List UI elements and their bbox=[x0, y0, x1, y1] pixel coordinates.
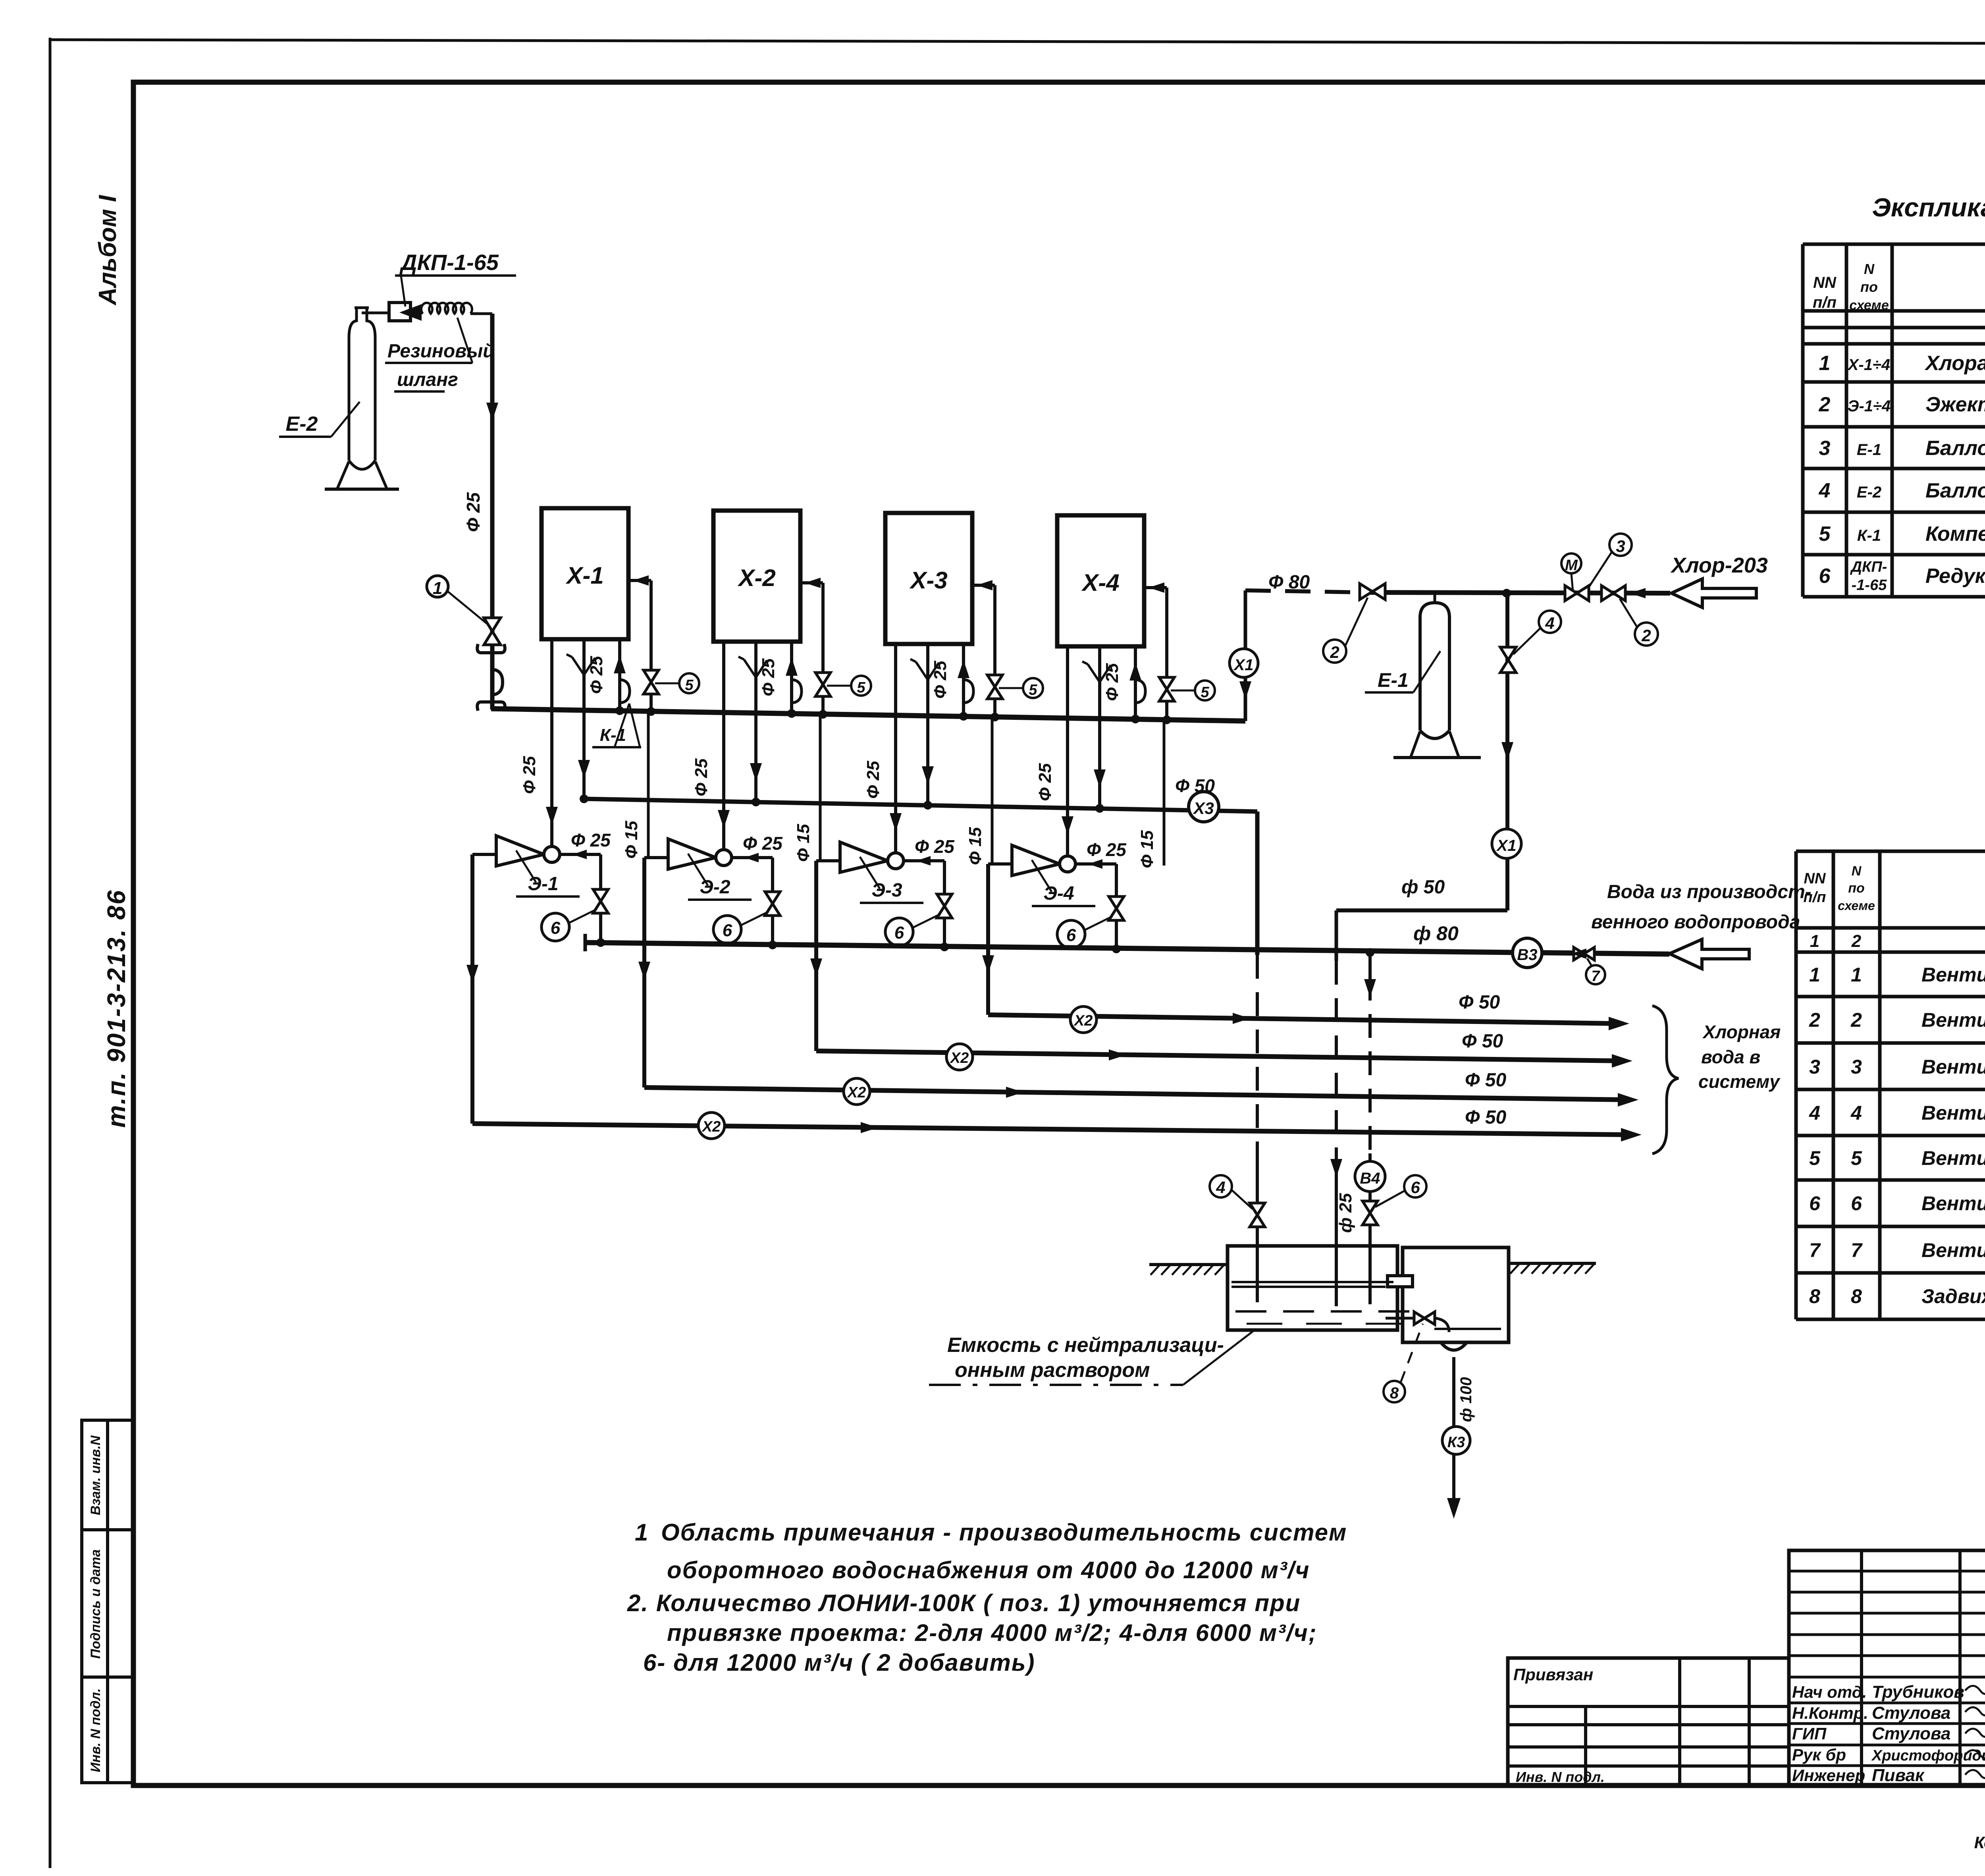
svg-text:Вентиль 15ч 14 бр; Ду 80;: Вентиль 15ч 14 бр; Ду 80; Ру 1,6 Мпа bbox=[1921, 1239, 1985, 1261]
svg-text:X1: X1 bbox=[1233, 656, 1254, 674]
svg-text:3: 3 bbox=[1809, 1056, 1820, 1078]
svg-text:X-2: X-2 bbox=[737, 565, 775, 591]
svg-text:2: 2 bbox=[1641, 626, 1651, 645]
svg-text:К-1: К-1 bbox=[1857, 527, 1881, 544]
svg-text:8: 8 bbox=[1390, 1384, 1399, 1402]
svg-text:Инв. N подл.: Инв. N подл. bbox=[88, 1688, 103, 1772]
svg-text:Ф 25: Ф 25 bbox=[863, 761, 883, 799]
svg-text:N: N bbox=[1852, 864, 1862, 879]
svg-text:Вентиль 15кч 18п Ду 15, Ру: Вентиль 15кч 18п Ду 15, Ру 1,6 Мпа bbox=[1921, 1147, 1985, 1169]
svg-text:6: 6 bbox=[723, 921, 732, 940]
svg-text:X-3: X-3 bbox=[909, 567, 947, 594]
svg-text:3: 3 bbox=[1616, 537, 1625, 555]
svg-text:схеме: схеме bbox=[1838, 898, 1875, 913]
svg-text:Хлор-203: Хлор-203 bbox=[1670, 553, 1768, 577]
svg-text:Ф 25: Ф 25 bbox=[587, 656, 606, 694]
svg-text:привязке проекта: 2-для: привязке проекта: 2-для 4000 м³/2; 4-для… bbox=[667, 1620, 1317, 1646]
svg-text:2: 2 bbox=[1819, 393, 1831, 416]
svg-text:X2: X2 bbox=[950, 1050, 969, 1066]
svg-text:Ф 50: Ф 50 bbox=[1465, 1070, 1507, 1091]
svg-text:Э-1÷4: Э-1÷4 bbox=[1848, 397, 1891, 415]
svg-text:Эжектор: Эжектор bbox=[1925, 393, 1985, 416]
svg-text:5: 5 bbox=[1851, 1147, 1862, 1169]
svg-text:4: 4 bbox=[1545, 614, 1554, 632]
svg-text:8: 8 bbox=[1851, 1285, 1862, 1307]
svg-text:по: по bbox=[1848, 881, 1865, 896]
svg-text:1: 1 bbox=[1810, 931, 1819, 951]
svg-text:вода в: вода в bbox=[1701, 1047, 1760, 1067]
svg-text:X1: X1 bbox=[1496, 837, 1517, 854]
svg-text:Е-1: Е-1 bbox=[1378, 669, 1409, 691]
svg-text:Ф 15: Ф 15 bbox=[966, 827, 985, 865]
svg-text:X2: X2 bbox=[1073, 1012, 1093, 1029]
svg-text:X-1: X-1 bbox=[565, 562, 603, 589]
svg-text:2. Количество ЛОНИИ-100К: 2. Количество ЛОНИИ-100К ( поз. 1) уточн… bbox=[627, 1590, 1301, 1616]
svg-text:4: 4 bbox=[1819, 479, 1831, 502]
svg-text:Привязан: Привязан bbox=[1513, 1665, 1593, 1684]
svg-text:8: 8 bbox=[1809, 1285, 1820, 1307]
svg-text:Трубников: Трубников bbox=[1872, 1682, 1964, 1702]
svg-text:Е-2: Е-2 bbox=[1857, 484, 1881, 501]
svg-text:оборотного водоснабжения: оборотного водоснабжения от 4000 до 1200… bbox=[667, 1557, 1310, 1583]
svg-text:онным раствором: онным раствором bbox=[955, 1359, 1150, 1382]
svg-text:7: 7 bbox=[1809, 1239, 1821, 1261]
svg-text:7: 7 bbox=[1851, 1239, 1863, 1261]
svg-text:Ф 15: Ф 15 bbox=[794, 824, 813, 862]
svg-text:Баллон с азотом емк. 50 л: Баллон с азотом емк. 50 л ГОСТ 949-73 bbox=[1925, 479, 1985, 502]
svg-text:6: 6 bbox=[1809, 1192, 1821, 1215]
svg-text:Экспликация аппаратов и оборуд: Экспликация аппаратов и оборудования bbox=[1872, 193, 1985, 222]
svg-text:5: 5 bbox=[1819, 523, 1831, 546]
svg-text:п/п: п/п bbox=[1813, 294, 1837, 311]
svg-text:Ф 25: Ф 25 bbox=[931, 661, 950, 699]
svg-text:2: 2 bbox=[1850, 1009, 1862, 1031]
svg-text:Ф 80: Ф 80 bbox=[1268, 572, 1310, 593]
svg-text:7: 7 bbox=[1591, 968, 1600, 985]
svg-text:X2: X2 bbox=[701, 1118, 721, 1135]
svg-text:ДКП-: ДКП- bbox=[1850, 559, 1887, 575]
svg-text:6: 6 bbox=[1819, 565, 1831, 588]
svg-text:Ф 15: Ф 15 bbox=[622, 821, 641, 859]
svg-text:т.п. 901-3-213. 86: т.п. 901-3-213. 86 bbox=[102, 889, 131, 1128]
svg-text:Вентиль 15ч 64 п; Ду 50; Р: Вентиль 15ч 64 п; Ду 50; Ру 0,6 МПа bbox=[1921, 1102, 1985, 1124]
svg-text:Ф 50: Ф 50 bbox=[1462, 1031, 1503, 1052]
svg-text:6- для 12000 м³/ч ( 2 добав: 6- для 12000 м³/ч ( 2 добавить) bbox=[643, 1649, 1035, 1676]
svg-text:Нач отд.: Нач отд. bbox=[1792, 1683, 1867, 1701]
svg-text:Хлорная: Хлорная bbox=[1702, 1022, 1781, 1042]
svg-text:Инженер: Инженер bbox=[1792, 1766, 1865, 1785]
svg-text:Ф 50: Ф 50 bbox=[1459, 992, 1500, 1013]
svg-text:Пивак: Пивак bbox=[1872, 1766, 1925, 1785]
svg-text:5: 5 bbox=[1809, 1147, 1821, 1169]
svg-text:Вентиль 15ч 64п; Ду 80. Ру: Вентиль 15ч 64п; Ду 80. Ру 0.6 МПа bbox=[1921, 1009, 1985, 1031]
svg-text:X3: X3 bbox=[1193, 799, 1214, 817]
svg-text:Баллон- грязевик: Баллон- грязевик bbox=[1925, 437, 1985, 460]
svg-text:2: 2 bbox=[1809, 1009, 1820, 1031]
svg-text:Ф 25: Ф 25 bbox=[692, 758, 711, 796]
svg-text:ф 100: ф 100 bbox=[1457, 1377, 1475, 1422]
svg-text:2: 2 bbox=[1330, 643, 1339, 661]
svg-text:NN: NN bbox=[1813, 274, 1837, 291]
svg-text:Ф 25: Ф 25 bbox=[463, 492, 484, 532]
svg-text:Альбом I: Альбом I bbox=[94, 195, 121, 306]
svg-text:Компенсатор: Компенсатор bbox=[1925, 523, 1985, 546]
svg-text:ф 50: ф 50 bbox=[1401, 877, 1445, 898]
svg-text:Ф 25: Ф 25 bbox=[743, 833, 783, 854]
svg-text:Ф 25: Ф 25 bbox=[759, 658, 778, 696]
svg-text:5: 5 bbox=[857, 679, 865, 696]
svg-text:Задвижа 30ч 6 бр , Ду 50;: Задвижа 30ч 6 бр , Ду 50; Ру 1.0 Мпа bbox=[1921, 1285, 1985, 1307]
svg-text:Ф 25: Ф 25 bbox=[1035, 763, 1055, 801]
svg-text:Э-2: Э-2 bbox=[700, 877, 730, 898]
svg-text:Христофориди: Христофориди bbox=[1871, 1747, 1985, 1764]
svg-text:6: 6 bbox=[1411, 1178, 1420, 1197]
svg-text:Вода из производст-: Вода из производст- bbox=[1607, 881, 1812, 902]
svg-text:4: 4 bbox=[1216, 1178, 1225, 1197]
svg-text:Н.Контр.: Н.Контр. bbox=[1792, 1704, 1868, 1722]
svg-text:1: 1 bbox=[1809, 964, 1820, 986]
svg-text:6: 6 bbox=[894, 923, 904, 943]
svg-text:Е-2: Е-2 bbox=[286, 413, 318, 436]
svg-text:венного водопровода: венного водопровода bbox=[1591, 912, 1800, 933]
svg-text:Е-1: Е-1 bbox=[1857, 441, 1881, 459]
svg-text:3: 3 bbox=[1819, 437, 1831, 460]
svg-text:ДКП-1-65: ДКП-1-65 bbox=[399, 250, 499, 275]
svg-text:1: 1 bbox=[1851, 964, 1862, 986]
svg-text:Ф 25: Ф 25 bbox=[1087, 839, 1127, 860]
svg-text:Вентиль 15кч 18 п; Ду 25;: Вентиль 15кч 18 п; Ду 25; Ру 1,6 Мпа bbox=[1921, 1192, 1985, 1215]
svg-text:1: 1 bbox=[1819, 352, 1831, 375]
svg-text:Подпись и дата: Подпись и дата bbox=[88, 1549, 103, 1659]
svg-text:X2: X2 bbox=[847, 1084, 866, 1101]
svg-text:6: 6 bbox=[1066, 925, 1076, 945]
svg-text:Ф 15: Ф 15 bbox=[1137, 830, 1157, 868]
svg-text:ГИП: ГИП bbox=[1792, 1724, 1827, 1743]
svg-text:Ф 25: Ф 25 bbox=[520, 756, 539, 794]
svg-text:Стулова: Стулова bbox=[1872, 1724, 1950, 1743]
svg-text:Э-1: Э-1 bbox=[528, 873, 558, 895]
svg-text:Инв. N подл.: Инв. N подл. bbox=[1516, 1769, 1605, 1785]
svg-text:Резиновый: Резиновый bbox=[387, 341, 495, 362]
svg-text:В4: В4 bbox=[1360, 1170, 1380, 1187]
svg-text:-1-65: -1-65 bbox=[1852, 577, 1887, 594]
svg-text:Ф 50: Ф 50 bbox=[1465, 1107, 1507, 1128]
svg-text:Рук бр: Рук бр bbox=[1792, 1745, 1846, 1764]
svg-text:Область примечания - пр: Область примечания - производительность … bbox=[661, 1519, 1347, 1546]
svg-text:5: 5 bbox=[685, 677, 694, 694]
svg-text:N: N bbox=[1864, 261, 1875, 277]
svg-text:Вентиль 15с 27нж1; Ду 15,: Вентиль 15с 27нж1; Ду 15, Ру 6,4 МПа bbox=[1921, 964, 1985, 986]
svg-text:5: 5 bbox=[1201, 684, 1209, 701]
svg-text:Емкость с нейтрализаци-: Емкость с нейтрализаци- bbox=[947, 1334, 1224, 1357]
svg-text:К-1: К-1 bbox=[600, 725, 626, 745]
svg-text:Ф 25: Ф 25 bbox=[915, 836, 955, 857]
svg-text:Э-3: Э-3 bbox=[871, 880, 902, 901]
svg-text:ф 80: ф 80 bbox=[1413, 922, 1459, 945]
svg-text:Ф 25: Ф 25 bbox=[571, 830, 611, 850]
svg-text:К3: К3 bbox=[1447, 1434, 1465, 1451]
svg-text:систему: систему bbox=[1698, 1071, 1781, 1092]
svg-text:Взам. инв.N: Взам. инв.N bbox=[88, 1435, 103, 1515]
svg-text:схеме: схеме bbox=[1849, 298, 1889, 313]
svg-text:6: 6 bbox=[551, 918, 561, 938]
svg-text:4: 4 bbox=[1850, 1102, 1862, 1124]
svg-text:1: 1 bbox=[433, 578, 442, 598]
svg-text:X-4: X-4 bbox=[1081, 569, 1119, 596]
svg-text:2: 2 bbox=[1851, 931, 1862, 951]
svg-text:Ф 25: Ф 25 bbox=[1102, 663, 1122, 701]
svg-text:6: 6 bbox=[1851, 1192, 1862, 1215]
svg-text:5: 5 bbox=[1029, 682, 1037, 698]
svg-text:шланг: шланг bbox=[397, 369, 458, 390]
svg-text:4: 4 bbox=[1809, 1102, 1820, 1124]
svg-text:Э-4: Э-4 bbox=[1043, 883, 1074, 904]
svg-text:ф 25: ф 25 bbox=[1336, 1193, 1355, 1233]
svg-text:В3: В3 bbox=[1517, 946, 1537, 964]
svg-text:М: М bbox=[1565, 557, 1578, 574]
svg-text:Вентиль 14нж 917п 34-1; Ду 8: Вентиль 14нж 917п 34-1; Ду 80. Ру 1,0 Мп… bbox=[1921, 1056, 1985, 1078]
svg-text:X-1÷4: X-1÷4 bbox=[1847, 356, 1890, 374]
svg-text:Копир. Лаврухина: Копир. Лаврухина bbox=[1974, 1833, 1985, 1852]
svg-text:Хлоратор ЛОНИИ-100К: Хлоратор ЛОНИИ-100К bbox=[1924, 352, 1985, 375]
svg-text:1: 1 bbox=[635, 1519, 648, 1546]
svg-text:Стулова: Стулова bbox=[1872, 1703, 1950, 1723]
svg-text:Редуктор кислородный Д6, Р: Редуктор кислородный Д6, Ру 200 bbox=[1925, 565, 1985, 588]
svg-text:по: по bbox=[1860, 279, 1878, 295]
svg-text:3: 3 bbox=[1851, 1056, 1862, 1078]
